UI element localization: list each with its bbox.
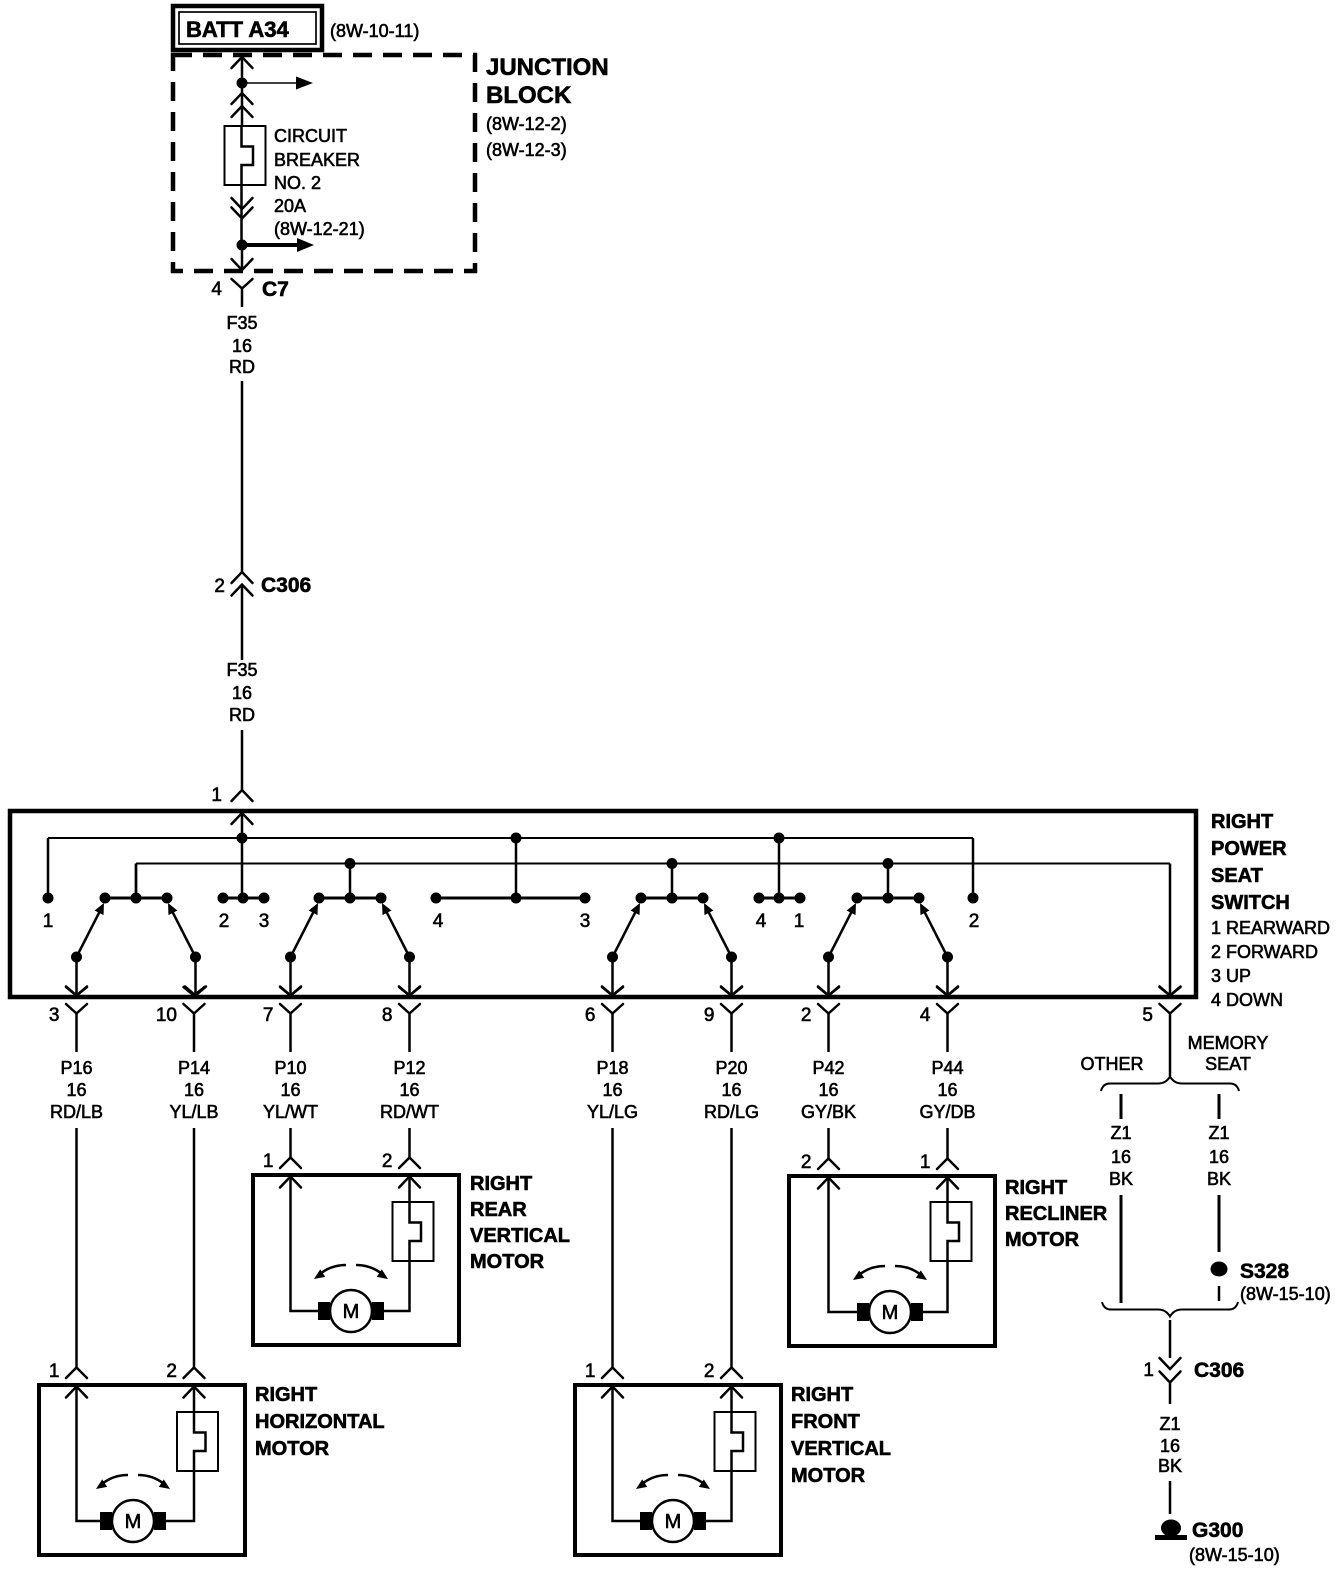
svg-text:REAR: REAR	[470, 1199, 527, 1221]
svg-text:GY/DB: GY/DB	[919, 1102, 975, 1122]
right front vertical motor label	[791, 1384, 891, 1487]
recliner motor right wire upper	[946, 1178, 949, 1202]
svg-text:P42: P42	[812, 1058, 844, 1078]
bus A dot at node 4-1	[774, 833, 785, 844]
horizontal motor breaker	[177, 1412, 218, 1471]
svg-text:4: 4	[433, 911, 444, 932]
switch pin 9 exit	[704, 987, 742, 1052]
svg-text:2: 2	[214, 576, 225, 597]
svg-text:MOTOR: MOTOR	[470, 1251, 545, 1273]
wire label P12 16 RD/WT	[380, 1058, 439, 1122]
rear vertical motor left wire	[291, 1177, 319, 1311]
svg-text:(8W-12-21): (8W-12-21)	[274, 219, 365, 239]
svg-text:MOTOR: MOTOR	[255, 1438, 330, 1460]
svg-text:Z1: Z1	[1159, 1414, 1180, 1434]
svg-text:P18: P18	[596, 1058, 628, 1078]
svg-text:3: 3	[259, 911, 270, 932]
wire P42 to recliner motor	[827, 1128, 830, 1159]
svg-text:16: 16	[184, 1080, 204, 1100]
svg-text:4: 4	[211, 279, 222, 300]
bus A left drop to node 1	[47, 838, 50, 893]
horizontal motor rotation arrows	[96, 1475, 170, 1489]
rear vertical motor right wire lower	[384, 1261, 410, 1311]
svg-text:M: M	[665, 1511, 682, 1533]
svg-text:8: 8	[382, 1005, 393, 1026]
switch pin 4 exit	[920, 987, 958, 1052]
svg-text:RIGHT: RIGHT	[255, 1384, 317, 1406]
svg-text:16: 16	[937, 1080, 957, 1100]
connector C306 pin 1 (ground)	[1143, 1358, 1244, 1383]
svg-text:16: 16	[66, 1080, 86, 1100]
wire Z1 memory branch lower	[1218, 1286, 1221, 1301]
svg-text:4 DOWN: 4 DOWN	[1211, 990, 1283, 1010]
bus A horizontal	[48, 837, 973, 839]
switch pole group 2 (rear vertical)	[280, 864, 420, 996]
svg-text:RD: RD	[229, 357, 255, 377]
wire from junction node to C7	[241, 245, 244, 269]
wire label P18 16 YL/LG	[587, 1058, 638, 1122]
drop wire bus A to node 4-1	[778, 838, 781, 893]
svg-text:1: 1	[43, 911, 54, 932]
svg-text:5: 5	[1142, 1005, 1153, 1026]
svg-text:SWITCH: SWITCH	[1211, 892, 1290, 914]
svg-text:MOTOR: MOTOR	[791, 1465, 866, 1487]
svg-text:Z1: Z1	[1208, 1123, 1229, 1143]
wire stub other branch	[1120, 1094, 1123, 1119]
svg-text:4: 4	[756, 911, 767, 932]
svg-text:2: 2	[382, 1151, 393, 1172]
svg-text:4: 4	[920, 1005, 931, 1026]
svg-text:GY/BK: GY/BK	[801, 1102, 856, 1122]
svg-text:POWER: POWER	[1211, 838, 1287, 860]
bus A dot at node 4-3	[511, 833, 522, 844]
svg-text:C306: C306	[261, 574, 311, 597]
svg-text:MOTOR: MOTOR	[1005, 1229, 1080, 1251]
wire Z1 other branch	[1120, 1195, 1123, 1303]
wire P16 to horizontal motor	[75, 1128, 78, 1368]
rear vertical motor rotation arrows	[314, 1265, 388, 1279]
node 2 contact	[968, 893, 980, 933]
svg-text:M: M	[882, 1302, 899, 1324]
svg-text:BK: BK	[1207, 1169, 1231, 1189]
svg-text:16: 16	[280, 1080, 300, 1100]
svg-text:1: 1	[263, 1151, 274, 1172]
recliner motor left wire	[829, 1178, 858, 1312]
wire stub memory seat branch	[1218, 1094, 1221, 1119]
switch pin 2 exit	[801, 987, 839, 1052]
wire label Z1 16 BK (other)	[1109, 1123, 1133, 1189]
svg-text:RD/WT: RD/WT	[380, 1102, 439, 1122]
bus B horizontal	[136, 863, 1170, 865]
recliner motor breaker	[931, 1202, 972, 1261]
switch pin 8 exit	[382, 987, 420, 1052]
wire F35 from C7 to C306	[241, 381, 244, 572]
connector double chevron into breaker row	[232, 93, 253, 117]
motor M front vertical	[640, 1500, 706, 1542]
svg-text:MEMORY: MEMORY	[1188, 1033, 1269, 1053]
front vertical motor left wire	[613, 1387, 641, 1521]
svg-text:16: 16	[399, 1080, 419, 1100]
svg-text:2: 2	[219, 911, 230, 932]
front vertical motor right wire upper	[730, 1387, 733, 1412]
svg-text:RIGHT: RIGHT	[791, 1384, 853, 1406]
right power seat switch box	[10, 811, 1196, 997]
wire from breaker to junction node	[240, 185, 243, 245]
wire label P44 16 GY/DB	[919, 1058, 975, 1122]
wire from BATT A34 into junction block	[232, 57, 253, 126]
switch pin 6 exit	[585, 987, 623, 1052]
svg-text:C306: C306	[1194, 1359, 1244, 1382]
front vertical motor breaker	[715, 1412, 756, 1471]
connector switch pin 1	[211, 785, 252, 806]
svg-text:(8W-12-2): (8W-12-2)	[486, 114, 567, 134]
wire label Z1 16 BK (ground)	[1158, 1414, 1182, 1476]
node 4-3 contacts	[431, 893, 591, 933]
svg-text:16: 16	[232, 336, 252, 356]
svg-text:P44: P44	[931, 1058, 963, 1078]
split brace under pin 5	[1101, 1077, 1239, 1092]
svg-text:P12: P12	[393, 1058, 425, 1078]
node junction dot above C7	[237, 240, 248, 251]
ground G300	[1155, 1519, 1280, 1565]
wire label F35 16 RD (upper)	[226, 313, 257, 377]
svg-text:2: 2	[801, 1005, 812, 1026]
wire to ground G300	[1169, 1481, 1172, 1514]
recliner motor pin 1 connector	[920, 1152, 958, 1189]
svg-text:RIGHT: RIGHT	[1211, 811, 1273, 833]
svg-text:16: 16	[232, 683, 252, 703]
svg-text:HORIZONTAL: HORIZONTAL	[255, 1411, 385, 1433]
svg-text:1: 1	[920, 1152, 931, 1173]
svg-text:RECLINER: RECLINER	[1005, 1203, 1108, 1225]
circuit breaker label	[274, 126, 365, 239]
bus A dot at feed	[237, 833, 248, 844]
wire Z1 memory branch upper	[1218, 1195, 1221, 1252]
svg-text:P16: P16	[60, 1058, 92, 1078]
node junction dot below BATT	[237, 78, 248, 89]
svg-text:16: 16	[1111, 1147, 1131, 1167]
wire P14 to horizontal motor	[193, 1128, 196, 1368]
wire P20 to front vertical motor	[730, 1128, 733, 1368]
branch arrow to other circuits (bold)	[247, 238, 314, 252]
front vertical motor pin 1 connector	[585, 1361, 623, 1398]
svg-text:1: 1	[211, 785, 222, 806]
branch arrow to other circuits (thin)	[247, 77, 313, 90]
svg-text:BLOCK: BLOCK	[486, 82, 572, 109]
switch pole group 1 (horizontal)	[66, 864, 206, 996]
svg-text:RD/LG: RD/LG	[704, 1102, 759, 1122]
drop wire bus A to node 4-3	[515, 838, 518, 893]
wire label F35 16 RD (lower)	[226, 660, 257, 725]
right recliner motor box	[789, 1176, 995, 1346]
svg-text:RD: RD	[229, 705, 255, 725]
svg-text:F35: F35	[226, 313, 257, 333]
node 2-3 contacts	[218, 893, 270, 933]
right horizontal motor label	[255, 1384, 385, 1460]
svg-text:2: 2	[704, 1361, 715, 1382]
horizontal motor right wire upper	[193, 1387, 196, 1412]
svg-text:OTHER: OTHER	[1081, 1054, 1144, 1074]
svg-text:3: 3	[49, 1005, 60, 1026]
svg-text:9: 9	[704, 1005, 715, 1026]
svg-text:BATT A34: BATT A34	[186, 17, 289, 42]
switch pin 3 exit	[49, 987, 87, 1052]
svg-text:M: M	[343, 1301, 360, 1323]
svg-text:6: 6	[585, 1005, 596, 1026]
svg-text:YL/LB: YL/LB	[169, 1102, 218, 1122]
svg-text:16: 16	[818, 1080, 838, 1100]
svg-text:BREAKER: BREAKER	[274, 150, 360, 170]
merge brace above C306	[1102, 1302, 1238, 1317]
switch pin 10 exit	[156, 987, 205, 1052]
connector double chevron below breaker	[232, 198, 253, 219]
svg-text:VERTICAL: VERTICAL	[791, 1438, 891, 1460]
bus A right drop to node 2	[972, 838, 975, 893]
switch pin 5 exit	[1142, 987, 1180, 1076]
svg-text:1: 1	[49, 1361, 60, 1382]
right rear vertical motor box	[253, 1175, 459, 1345]
svg-text:P10: P10	[274, 1058, 306, 1078]
svg-text:CIRCUIT: CIRCUIT	[274, 126, 347, 146]
recliner motor rotation arrows	[853, 1266, 927, 1280]
front vertical motor right wire lower	[706, 1471, 732, 1521]
svg-text:1: 1	[794, 911, 805, 932]
svg-text:1: 1	[1143, 1360, 1154, 1381]
rear vertical motor right wire upper	[408, 1177, 411, 1202]
right recliner motor label	[1005, 1177, 1108, 1251]
junction block label	[486, 54, 609, 160]
svg-text:16: 16	[602, 1080, 622, 1100]
svg-text:YL/LG: YL/LG	[587, 1102, 638, 1122]
wire label P16 16 RD/LB	[50, 1058, 103, 1122]
svg-text:F35: F35	[226, 660, 257, 680]
horizontal motor right wire lower	[166, 1471, 194, 1521]
svg-text:(8W-12-3): (8W-12-3)	[486, 140, 567, 160]
svg-text:2: 2	[969, 911, 980, 932]
bus B dot group 2	[345, 858, 356, 869]
rear vertical motor pin 2 connector	[382, 1151, 420, 1188]
svg-text:SEAT: SEAT	[1205, 1054, 1251, 1074]
svg-text:10: 10	[156, 1005, 177, 1026]
svg-text:(8W-15-10): (8W-15-10)	[1189, 1545, 1280, 1565]
circuit breaker No. 2 symbol	[225, 126, 266, 185]
horizontal motor left wire	[77, 1387, 101, 1521]
junction block dashed boundary	[173, 55, 475, 271]
svg-text:RIGHT: RIGHT	[470, 1173, 532, 1195]
wire label P20 16 RD/LG	[704, 1058, 759, 1122]
svg-text:(8W-15-10): (8W-15-10)	[1240, 1284, 1331, 1304]
svg-text:RIGHT: RIGHT	[1005, 1177, 1067, 1199]
motor M recliner	[857, 1291, 923, 1333]
svg-text:G300: G300	[1192, 1519, 1243, 1542]
wire P44 to recliner motor	[946, 1128, 949, 1159]
wire label Z1 16 BK (memory seat)	[1207, 1123, 1231, 1189]
svg-text:20A: 20A	[274, 196, 306, 216]
front vertical motor rotation arrows	[636, 1475, 710, 1489]
svg-text:Z1: Z1	[1110, 1123, 1131, 1143]
front vertical motor pin 2 connector	[704, 1361, 742, 1398]
wire P10 to rear vertical motor	[289, 1128, 292, 1158]
svg-text:(8W-10-11): (8W-10-11)	[330, 21, 419, 41]
rear vertical motor pin 1 connector	[263, 1151, 301, 1188]
svg-text:RD/LB: RD/LB	[50, 1102, 103, 1122]
svg-text:SEAT: SEAT	[1211, 865, 1263, 887]
horizontal motor pin 1 connector	[49, 1361, 87, 1398]
right horizontal motor box	[39, 1385, 245, 1555]
connector C306 pin 2	[214, 572, 311, 597]
svg-text:7: 7	[263, 1005, 274, 1026]
svg-text:S328: S328	[1240, 1260, 1289, 1283]
svg-text:1 REARWARD: 1 REARWARD	[1211, 918, 1330, 938]
wire F35 from C306 to switch	[241, 585, 244, 661]
switch labels	[1211, 811, 1330, 1010]
svg-text:3 UP: 3 UP	[1211, 966, 1251, 986]
svg-text:16: 16	[1160, 1436, 1180, 1456]
bus B dot group 3	[667, 858, 678, 869]
motor M horizontal	[100, 1500, 166, 1542]
bus B dot group 4	[883, 858, 894, 869]
switch pole group 4 (recliner)	[818, 864, 958, 996]
svg-text:M: M	[125, 1511, 142, 1533]
svg-text:BK: BK	[1109, 1169, 1133, 1189]
right front vertical motor box	[575, 1385, 781, 1555]
rear vertical motor breaker	[393, 1202, 434, 1261]
connector C7 pin 4 at junction block edge	[211, 259, 288, 307]
svg-text:16: 16	[1209, 1147, 1229, 1167]
svg-text:2 FORWARD: 2 FORWARD	[1211, 942, 1318, 962]
wire P18 to front vertical motor	[611, 1128, 614, 1368]
svg-text:VERTICAL: VERTICAL	[470, 1225, 570, 1247]
svg-text:NO. 2: NO. 2	[274, 173, 321, 193]
switch pole group 3 (front vertical)	[602, 864, 742, 996]
svg-text:2: 2	[801, 1152, 812, 1173]
svg-text:16: 16	[721, 1080, 741, 1100]
node 1 contact	[43, 893, 54, 933]
wire below C306	[1169, 1382, 1172, 1404]
svg-text:BK: BK	[1158, 1456, 1182, 1476]
svg-text:P14: P14	[178, 1058, 210, 1078]
wire label P10 16 YL/WT	[263, 1058, 318, 1122]
motor M rear vertical	[318, 1290, 384, 1332]
svg-text:JUNCTION: JUNCTION	[486, 54, 609, 81]
svg-text:2: 2	[166, 1361, 177, 1382]
recliner motor right wire lower	[923, 1261, 948, 1312]
wire F35 into switch pin 1	[241, 730, 244, 791]
wire label P14 16 YL/LB	[169, 1058, 218, 1122]
svg-text:3: 3	[580, 911, 591, 932]
node 4-1 contacts	[754, 893, 806, 933]
svg-text:YL/WT: YL/WT	[263, 1102, 318, 1122]
wire P12 to rear vertical motor	[408, 1128, 411, 1158]
svg-text:1: 1	[585, 1361, 596, 1382]
right rear vertical motor label	[470, 1173, 570, 1273]
battery feed box BATT A34	[173, 6, 322, 50]
switch pin 7 exit	[263, 987, 301, 1052]
bus B right drop to pin 5	[1169, 864, 1172, 996]
label MEMORY SEAT	[1188, 1033, 1269, 1074]
splice S328	[1211, 1260, 1331, 1304]
svg-text:P20: P20	[715, 1058, 747, 1078]
bus B left drop to group 1 common	[135, 864, 138, 894]
feed entry arrow inside switch	[232, 813, 253, 893]
horizontal motor pin 2 connector	[166, 1361, 204, 1398]
wire label P42 16 GY/BK	[801, 1058, 856, 1122]
recliner motor pin 2 connector	[801, 1152, 839, 1189]
svg-text:FRONT: FRONT	[791, 1411, 860, 1433]
wire to C306 ground side	[1169, 1320, 1172, 1358]
svg-text:C7: C7	[262, 278, 289, 301]
